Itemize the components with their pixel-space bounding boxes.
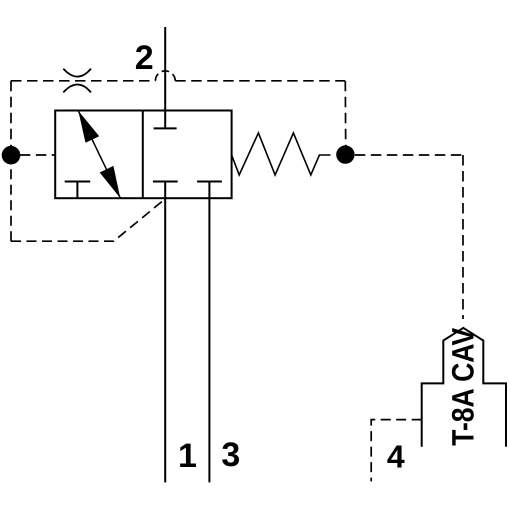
node right: [336, 145, 354, 163]
pilot line: left vertical upper: [10, 81, 12, 147]
svg-text:4: 4: [387, 439, 405, 475]
port 4 pilot line: [371, 420, 422, 482]
pilot line: right node to cavity drop: [355, 154, 463, 156]
arrowhead upper: [78, 111, 99, 143]
pilot line hop arc over port 2: [155, 71, 175, 81]
port 3 line: [208, 182, 210, 483]
pilot line: left node to valve: [20, 154, 55, 156]
valve position divider: [142, 111, 144, 199]
svg-text:T-8A CAV: T-8A CAV: [445, 328, 480, 446]
svg-text:3: 3: [221, 436, 240, 474]
node left: [2, 146, 21, 165]
orifice restriction arcs: [63, 69, 91, 93]
pilot line: top horizontal with hop over port 2 line: [11, 80, 345, 82]
blocked port T (right position, port 2): [154, 127, 177, 129]
port 2 line: [164, 27, 166, 128]
port 1 line: [164, 198, 166, 482]
arrowhead lower: [100, 166, 121, 198]
blocked port T (left position, port 1): [65, 182, 91, 199]
pilot line: right drop to cartridge: [462, 155, 464, 319]
pilot line: left vertical lower: [10, 164, 12, 241]
valve body outline: [55, 111, 231, 199]
blocked port T (right position, port 3): [197, 181, 222, 183]
svg-text:1: 1: [178, 437, 197, 475]
flow arrow shaft (left position): [78, 111, 120, 198]
pilot line: right vertical to right node: [344, 81, 346, 146]
pilot line: lower-left drain path: [11, 199, 165, 241]
cartridge cavity outline T-8A: [422, 328, 506, 447]
svg-text:2: 2: [135, 39, 154, 77]
spring: [232, 133, 331, 175]
blocked port T (right position, port 1): [153, 182, 178, 199]
